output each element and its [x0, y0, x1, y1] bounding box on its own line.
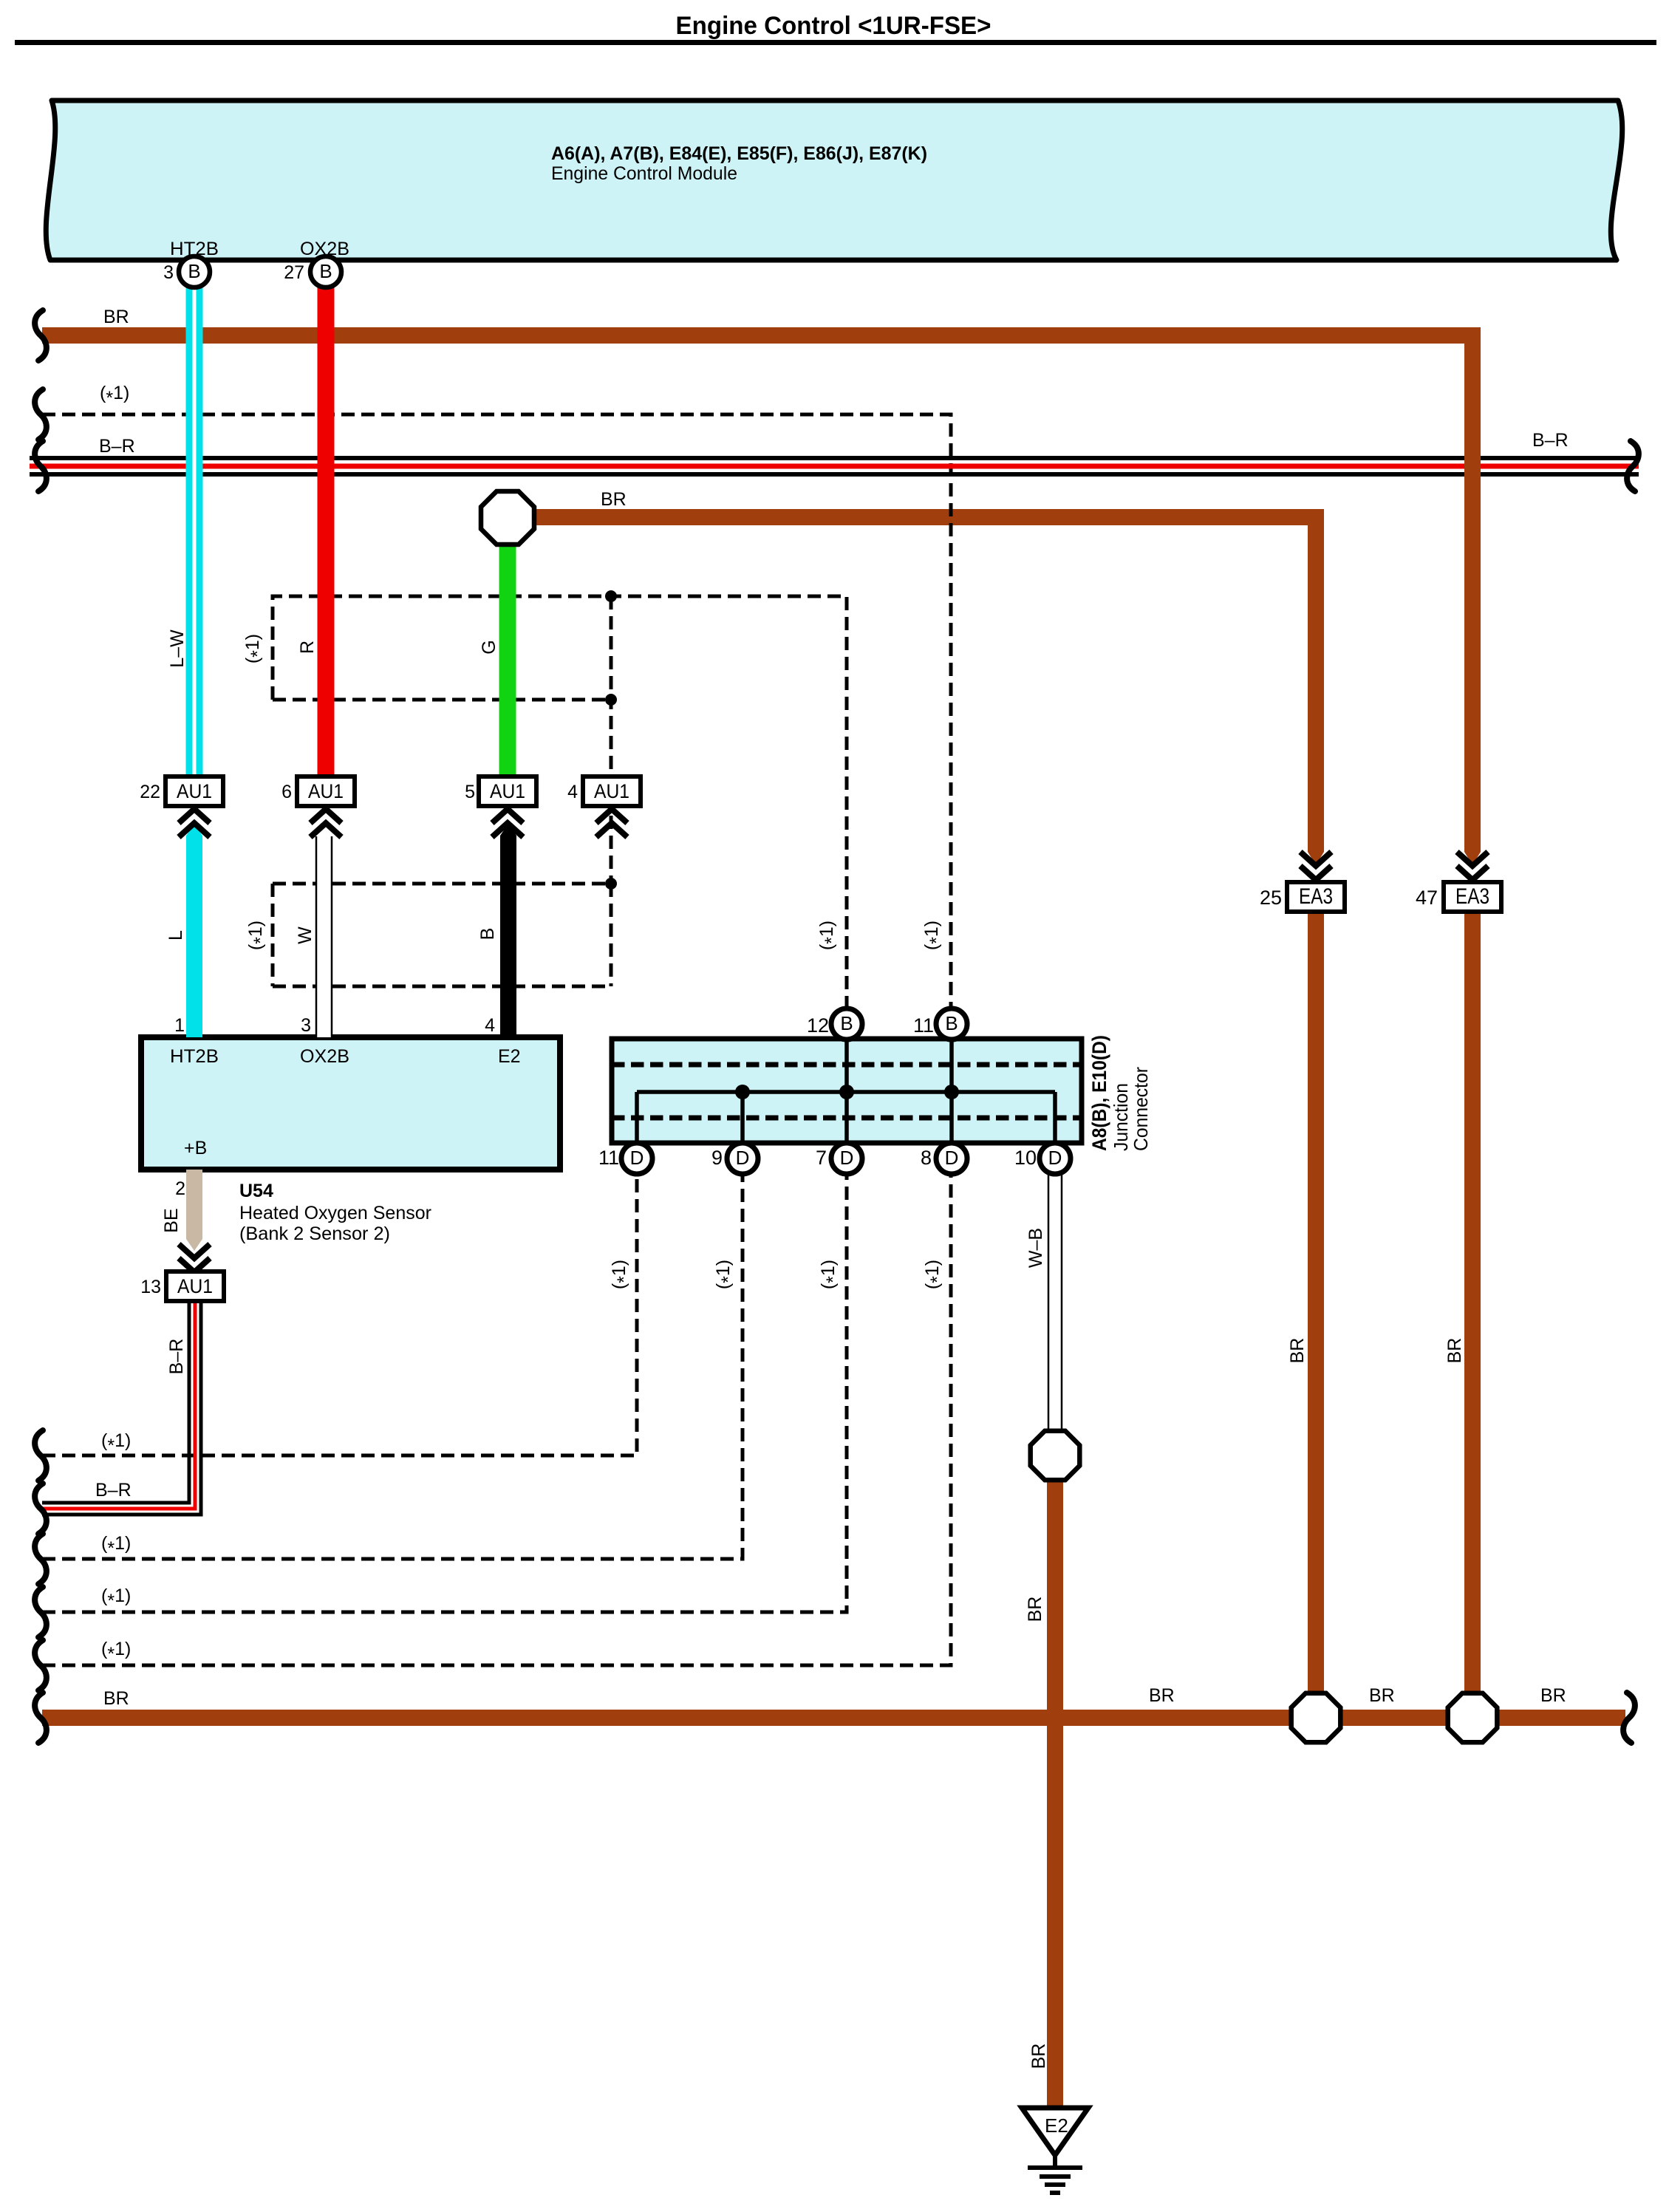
svg-text:W–B: W–B	[1025, 1228, 1046, 1268]
svg-text:8: 8	[921, 1147, 932, 1169]
svg-text:7: 7	[816, 1147, 827, 1169]
svg-text:BE: BE	[161, 1208, 182, 1232]
svg-text:BR: BR	[1540, 1685, 1566, 1706]
svg-text:Connector: Connector	[1130, 1067, 1152, 1151]
svg-text:U54: U54	[239, 1181, 273, 1201]
svg-text:BR: BR	[103, 307, 129, 327]
svg-text:22: 22	[140, 782, 160, 802]
svg-text:AU1: AU1	[594, 780, 629, 802]
svg-text:E2: E2	[1045, 2114, 1068, 2137]
svg-text:EA3: EA3	[1455, 884, 1489, 909]
svg-text:B–R: B–R	[99, 436, 135, 457]
svg-text:OX2B: OX2B	[300, 1046, 349, 1067]
svg-text:A6(A), A7(B), E84(E), E85(F),: A6(A), A7(B), E84(E), E85(F), E86(J), E8…	[551, 143, 927, 164]
svg-text:B–R: B–R	[95, 1480, 132, 1501]
svg-text:D: D	[945, 1147, 959, 1169]
svg-text:B: B	[319, 260, 332, 282]
svg-text:B: B	[477, 928, 498, 941]
svg-text:6: 6	[281, 782, 292, 802]
svg-text:AU1: AU1	[177, 780, 212, 802]
svg-text:W: W	[295, 926, 315, 944]
svg-text:BR: BR	[1028, 2044, 1049, 2069]
svg-text:OX2B: OX2B	[300, 239, 349, 259]
svg-text:AU1: AU1	[308, 780, 344, 802]
svg-text:5: 5	[465, 782, 475, 802]
svg-text:+B: +B	[184, 1138, 207, 1158]
svg-text:Engine Control <1UR-FSE>: Engine Control <1UR-FSE>	[676, 12, 991, 40]
svg-text:B: B	[840, 1012, 853, 1034]
svg-text:HT2B: HT2B	[170, 1046, 219, 1067]
svg-text:D: D	[630, 1147, 644, 1169]
svg-text:25: 25	[1260, 887, 1282, 909]
svg-text:BR: BR	[103, 1688, 129, 1709]
svg-text:D: D	[840, 1147, 854, 1169]
svg-text:47: 47	[1416, 887, 1438, 909]
svg-text:AU1: AU1	[177, 1275, 213, 1297]
svg-text:BR: BR	[1444, 1338, 1465, 1364]
svg-text:AU1: AU1	[490, 780, 525, 802]
svg-text:D: D	[736, 1147, 750, 1169]
svg-text:4: 4	[567, 782, 578, 802]
svg-text:EA3: EA3	[1299, 884, 1333, 909]
svg-text:R: R	[297, 641, 318, 654]
svg-text:11: 11	[598, 1147, 619, 1169]
svg-text:(Bank 2 Sensor 2): (Bank 2 Sensor 2)	[239, 1223, 390, 1244]
svg-text:27: 27	[284, 262, 304, 283]
svg-text:3: 3	[163, 262, 174, 283]
svg-text:HT2B: HT2B	[170, 239, 219, 259]
svg-text:2: 2	[175, 1178, 185, 1199]
svg-text:BR: BR	[1369, 1685, 1395, 1706]
svg-text:L: L	[165, 930, 186, 941]
svg-text:E2: E2	[498, 1046, 521, 1067]
svg-text:BR: BR	[1149, 1685, 1175, 1706]
svg-text:L–W: L–W	[167, 629, 188, 668]
svg-text:BR: BR	[1025, 1597, 1045, 1622]
svg-text:4: 4	[485, 1015, 495, 1036]
svg-text:D: D	[1048, 1147, 1062, 1169]
svg-text:10: 10	[1014, 1147, 1037, 1169]
svg-text:B–R: B–R	[166, 1339, 187, 1375]
svg-text:1: 1	[174, 1015, 185, 1036]
svg-text:B–R: B–R	[1532, 430, 1569, 451]
svg-text:Junction: Junction	[1110, 1083, 1132, 1151]
svg-text:A8(B), E10(D): A8(B), E10(D)	[1088, 1035, 1110, 1151]
svg-text:13: 13	[140, 1277, 161, 1297]
svg-text:BR: BR	[601, 489, 627, 510]
svg-text:Engine Control Module: Engine Control Module	[551, 163, 737, 184]
svg-text:12: 12	[807, 1014, 829, 1037]
svg-text:G: G	[479, 640, 499, 654]
svg-text:B: B	[945, 1012, 958, 1034]
svg-text:BR: BR	[1287, 1338, 1308, 1364]
svg-text:B: B	[188, 260, 200, 282]
svg-text:Heated Oxygen Sensor: Heated Oxygen Sensor	[239, 1203, 431, 1223]
svg-text:9: 9	[711, 1147, 723, 1169]
svg-text:11: 11	[913, 1014, 934, 1037]
svg-text:3: 3	[301, 1015, 311, 1036]
